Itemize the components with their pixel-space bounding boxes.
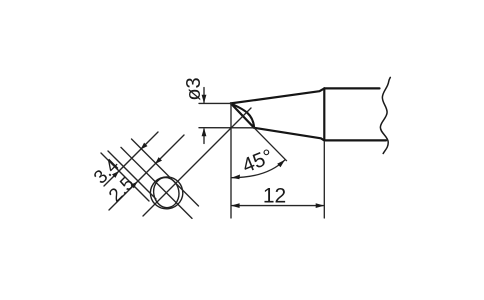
dim ext line bottom (phi3) (199, 127, 254, 129)
left vertical extension line (230, 103, 232, 218)
detail inner ellipse (151, 176, 181, 210)
bevel face ellipse (231, 103, 254, 127)
phi3 arrow stem bottom (203, 129, 205, 144)
tip cone bottom outline (254, 128, 324, 141)
arc arrowhead right (45deg dir) (277, 160, 285, 168)
dim ext line top (phi3) (199, 102, 231, 104)
45deg leg line (254, 128, 286, 161)
detail arrow A1 (141, 143, 148, 150)
detail arrow A2 (155, 157, 162, 164)
body top line (324, 87, 379, 89)
break wavy line (380, 77, 390, 153)
12 arrowhead left (231, 203, 240, 208)
shoulder vertical (323, 88, 325, 140)
ext line Xa (132, 139, 199, 206)
detail arrow A3 (112, 171, 119, 178)
svg-text:ø3: ø3 (183, 77, 205, 100)
projection line to detail (143, 108, 251, 216)
svg-text:12: 12 (263, 184, 286, 207)
dim line D2 (2.5) (109, 135, 184, 210)
phi3 arrow stem top (203, 88, 205, 103)
12 arrowhead right (316, 203, 325, 208)
45deg arc (232, 160, 286, 178)
phi3 arrowhead down (202, 95, 207, 104)
right vertical extension line (323, 142, 325, 218)
ext line Xb1 (108, 151, 156, 199)
dim line D1 (3.4) (104, 132, 158, 186)
detail axis line (121, 147, 192, 218)
tip cone top outline (231, 88, 324, 103)
detail outer ellipse (148, 174, 185, 211)
ext line Xb (101, 153, 149, 201)
detail arrow A4 (131, 182, 138, 189)
phi3 arrowhead up (202, 128, 207, 137)
bevel cut line (231, 103, 254, 127)
12 dimension line (232, 205, 323, 207)
body bottom line (324, 139, 386, 141)
arc arrowhead left (232, 175, 241, 180)
